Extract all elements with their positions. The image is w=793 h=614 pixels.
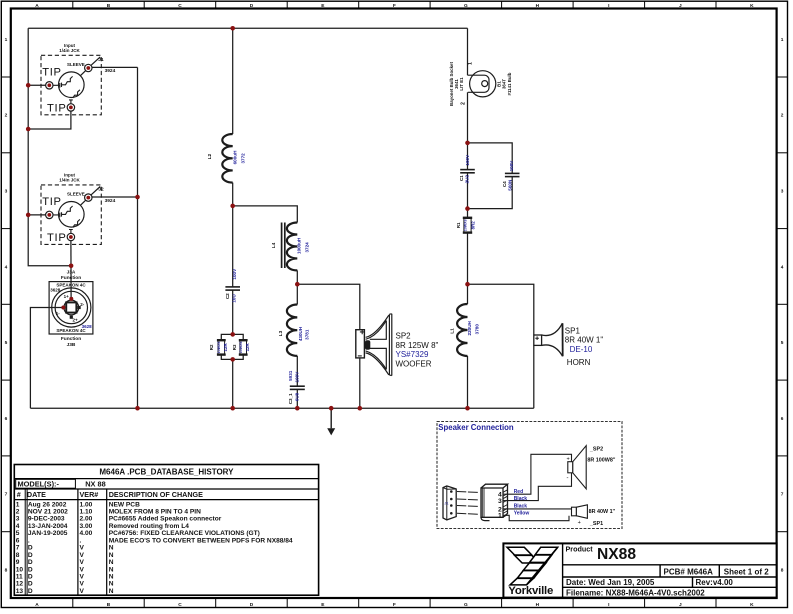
svg-text:Function: Function <box>61 275 81 281</box>
svg-text:N: N <box>109 559 114 566</box>
svg-text:C: C <box>178 3 182 9</box>
capacitor C3_1 6U8 <box>288 370 305 404</box>
svg-text:600uH: 600uH <box>232 150 237 164</box>
svg-text:2: 2 <box>5 113 8 119</box>
node C2 chain on bottom bus <box>230 406 235 411</box>
svg-text:5931: 5931 <box>288 370 293 381</box>
svg-text:6U8: 6U8 <box>295 392 300 401</box>
svg-text:L3: L3 <box>278 330 284 336</box>
svg-text:13: 13 <box>16 588 24 595</box>
svg-text:B: B <box>107 602 111 608</box>
svg-text:9: 9 <box>16 559 20 566</box>
svg-text:N: N <box>109 566 114 573</box>
svg-text:D: D <box>28 545 33 552</box>
ground <box>327 408 335 435</box>
node L4 / L3 / SP2 branch <box>295 282 300 287</box>
wire L3 to C3_1 <box>296 356 298 386</box>
svg-text:9-DEC-2003: 9-DEC-2003 <box>28 516 65 523</box>
svg-text:8R 40W 1": 8R 40W 1" <box>565 336 604 345</box>
svg-text:Date: Wed Jan 19, 2005: Date: Wed Jan 19, 2005 <box>566 578 655 587</box>
svg-text:Filename: NX88-M646A-4V0.sch2: Filename: NX88-M646A-4V0.sch2002 <box>566 588 705 597</box>
svg-text:10WX6: 10WX6 <box>464 219 468 231</box>
svg-text:12: 12 <box>16 581 24 588</box>
node C3_1 on bottom bus <box>295 406 300 411</box>
svg-text:N: N <box>109 574 114 581</box>
wire L3 node to coil <box>296 284 298 304</box>
svg-text:V: V <box>80 559 85 566</box>
svg-text:B: B <box>107 3 111 9</box>
svg-text:8: 8 <box>16 552 20 559</box>
wire C2 to R2R3 junction <box>232 291 234 335</box>
speaker connection detail <box>437 422 622 529</box>
svg-text:1.00: 1.00 <box>80 501 93 508</box>
svg-text:2U2: 2U2 <box>465 175 470 184</box>
node C4 return <box>465 206 470 211</box>
svg-text:2: 2 <box>461 102 467 105</box>
wire J2 tip stub <box>28 214 45 216</box>
capacitor C1 2U2 <box>459 154 475 184</box>
svg-text:1+: 1+ <box>64 294 70 299</box>
svg-text:F: F <box>393 3 396 9</box>
svg-text:100V: 100V <box>295 371 300 383</box>
node J2 tip on left bus <box>26 213 31 218</box>
svg-text:TIP: TIP <box>42 67 62 79</box>
wire top bus <box>28 27 467 29</box>
svg-text:A: A <box>35 3 39 9</box>
svg-text:D: D <box>28 574 33 581</box>
svg-text:D: D <box>250 602 254 608</box>
svg-text:JAN-19-2005: JAN-19-2005 <box>28 530 68 537</box>
svg-text:J3B: J3B <box>67 342 76 348</box>
svg-text:J2: J2 <box>98 187 104 193</box>
svg-text:G: G <box>464 3 468 9</box>
inductor L3 430UH <box>278 305 310 356</box>
svg-text:4.00: 4.00 <box>80 530 93 537</box>
svg-text:D: D <box>28 566 33 573</box>
svg-text:8: 8 <box>781 567 784 573</box>
svg-text:2: 2 <box>781 113 784 119</box>
svg-text:+: + <box>578 520 581 526</box>
svg-text:100V: 100V <box>465 154 470 166</box>
resistor R2 12R <box>209 340 228 354</box>
node SP2 on bottom bus <box>358 406 363 411</box>
inductor L4 1000uH with core <box>271 223 309 271</box>
svg-text:D: D <box>28 552 33 559</box>
svg-text:3924: 3924 <box>105 68 116 74</box>
svg-text:8R 100W8": 8R 100W8" <box>587 458 615 464</box>
svg-text:D: D <box>28 559 33 566</box>
node R2R3 top <box>230 332 235 337</box>
svg-text:L1: L1 <box>450 328 456 334</box>
svg-text:DE-10: DE-10 <box>570 345 593 354</box>
svg-text:K: K <box>750 602 754 608</box>
svg-text:3: 3 <box>5 189 8 195</box>
svg-text:_SP1: _SP1 <box>589 521 603 527</box>
svg-text:J: J <box>679 3 682 9</box>
svg-text:2: 2 <box>16 509 20 516</box>
svg-text:1: 1 <box>498 513 502 520</box>
svg-text:100V: 100V <box>232 268 237 280</box>
wire C3_1 to bottom bus <box>296 390 298 408</box>
svg-text:SP2: SP2 <box>396 332 412 341</box>
svg-text:TIP: TIP <box>42 196 62 208</box>
wire SP2 woofer to bottom bus <box>359 358 361 408</box>
svg-text:J3A: J3A <box>67 270 76 276</box>
wire J1 bottom tip to left bus <box>28 111 71 129</box>
svg-text:4: 4 <box>16 523 20 530</box>
svg-text:+: + <box>567 456 570 462</box>
capacitor C4 560N <box>502 160 520 191</box>
node J1 bottom tip on left bus <box>26 127 31 132</box>
svg-text:L2: L2 <box>207 153 213 159</box>
svg-text:PC#6756: FIXED CLEARANCE VIOLA: PC#6756: FIXED CLEARANCE VIOLATIONS (GT) <box>109 530 260 537</box>
svg-text:C4: C4 <box>502 181 507 187</box>
svg-text:Yellow: Yellow <box>514 510 530 516</box>
svg-text:V: V <box>80 581 85 588</box>
svg-text:VER#: VER# <box>80 490 99 499</box>
svg-text:3: 3 <box>16 516 20 523</box>
svg-text:V: V <box>80 552 85 559</box>
svg-text:WOOFER: WOOFER <box>396 359 432 368</box>
node top bus / L2 <box>230 26 235 31</box>
svg-text:NEW PCB: NEW PCB <box>109 501 140 508</box>
wire node to SP2 woofer <box>297 284 360 329</box>
svg-text:Product: Product <box>566 544 594 553</box>
node J1 tip on left bus <box>26 83 31 88</box>
svg-text:N: N <box>109 552 114 559</box>
svg-text:D: D <box>28 581 33 588</box>
node L2 / L4 branch <box>230 204 235 209</box>
svg-text:10: 10 <box>16 566 24 573</box>
svg-text:C: C <box>178 602 182 608</box>
svg-text:1: 1 <box>468 62 474 65</box>
svg-text:#: # <box>17 490 21 499</box>
wire J1 tip stub <box>28 84 45 86</box>
svg-text:NOV 21 2002: NOV 21 2002 <box>28 509 68 516</box>
svg-text:3.00: 3.00 <box>80 523 93 530</box>
node L1 / SP1 branch <box>465 282 470 287</box>
capacitor C2 10U <box>225 268 240 303</box>
svg-text:6: 6 <box>5 416 8 422</box>
svg-text:SLEEVE: SLEEVE <box>67 62 85 67</box>
svg-text:4: 4 <box>5 264 8 270</box>
bulb B1 bayonet socket <box>449 62 512 106</box>
svg-text:Removed routing from L4: Removed routing from L4 <box>109 523 190 530</box>
svg-text:10U: 10U <box>231 294 236 303</box>
wire node to SP1 horn <box>468 284 534 334</box>
svg-text:A: A <box>35 602 39 608</box>
svg-text:3781: 3781 <box>305 329 310 340</box>
svg-text:-: - <box>567 476 569 482</box>
node L1 on bottom bus <box>465 406 470 411</box>
connector J2 input 1/4in jack <box>41 172 116 244</box>
svg-text:3: 3 <box>498 498 502 505</box>
wire left bus down to speakon feed <box>28 28 71 265</box>
svg-text:13-JAN-2004: 13-JAN-2004 <box>28 523 68 530</box>
svg-text:MOLEX FROM 8 PIN TO 4 PIN: MOLEX FROM 8 PIN TO 4 PIN <box>109 509 201 516</box>
wire J2 bottom tip down to speakon pin1+ <box>70 241 72 298</box>
connector J3A J3B SPEAKON 4C <box>49 270 93 348</box>
svg-text:220UH: 220UH <box>467 320 472 335</box>
svg-text:1000uH: 1000uH <box>296 237 301 254</box>
wire L4 bottom to node <box>296 270 298 284</box>
svg-text:NX88: NX88 <box>597 546 636 563</box>
svg-text:1: 1 <box>781 37 784 43</box>
wire SP1 horn to bottom bus <box>533 346 535 409</box>
svg-text:N: N <box>109 588 114 595</box>
Yorkville logo <box>507 547 558 597</box>
svg-text:8R2: 8R2 <box>470 221 475 230</box>
wire sleeve bus vertical <box>137 67 139 408</box>
svg-text:1-: 1- <box>56 311 61 316</box>
svg-text:N: N <box>109 581 114 588</box>
svg-text:H: H <box>536 3 540 9</box>
svg-text:.: . <box>28 537 30 544</box>
wire R1 to L1 <box>467 233 469 304</box>
wire J2 sleeve to sleeve bus <box>92 196 138 198</box>
svg-text:Aug 26 2002: Aug 26 2002 <box>28 501 67 508</box>
node ground on bottom bus <box>329 406 334 411</box>
svg-text:4: 4 <box>781 264 784 270</box>
svg-text:G: G <box>464 602 468 608</box>
speaker SP1 horn <box>534 323 604 367</box>
wire L4 branch from L2 junction <box>233 206 298 223</box>
svg-text:5: 5 <box>5 340 8 346</box>
svg-text:M646A .PCB_DATABASE_HISTORY: M646A .PCB_DATABASE_HISTORY <box>99 468 234 477</box>
svg-text:7: 7 <box>781 492 784 498</box>
node C1 / C4 top <box>465 141 470 146</box>
svg-text:Sheet 1 of 2: Sheet 1 of 2 <box>724 567 769 576</box>
wire bottom bus <box>30 407 533 409</box>
svg-text:1/4in JCK: 1/4in JCK <box>59 48 80 53</box>
svg-text:C3_1: C3_1 <box>288 393 293 404</box>
svg-text:6: 6 <box>16 537 20 544</box>
connector J1 input 1/4in jack <box>41 43 116 115</box>
svg-text:3772: 3772 <box>240 153 245 164</box>
svg-text:Black: Black <box>514 496 528 502</box>
svg-text:SP1: SP1 <box>565 326 581 335</box>
node speakon feed junction <box>69 264 74 269</box>
wire speakon pin1- to bottom bus <box>30 308 62 409</box>
title block <box>503 543 776 597</box>
wire L2 column top <box>232 28 234 134</box>
svg-text:6: 6 <box>781 416 784 422</box>
resistor R3 12R <box>232 340 250 354</box>
svg-text:NX 88: NX 88 <box>85 480 106 489</box>
wire bulb column top <box>467 28 469 75</box>
svg-text:L4: L4 <box>271 242 277 248</box>
svg-text:C2: C2 <box>225 293 230 299</box>
svg-text:Yorkville: Yorkville <box>508 585 553 597</box>
svg-text:2+: 2+ <box>73 318 79 323</box>
wire bulb to C1 <box>467 92 469 169</box>
inductor L1 220UH <box>450 304 480 356</box>
svg-text:LIT E1: LIT E1 <box>459 77 464 91</box>
svg-text:3628: 3628 <box>50 288 61 293</box>
svg-text:#1141 Bulb: #1141 Bulb <box>507 72 512 95</box>
svg-text:V: V <box>80 566 85 573</box>
svg-text:430UH: 430UH <box>298 326 303 341</box>
svg-text:1: 1 <box>16 501 20 508</box>
svg-text:R2: R2 <box>209 344 214 350</box>
svg-text:K: K <box>750 3 754 9</box>
wire C4 branch <box>468 143 513 209</box>
node R2R3 bottom <box>230 357 235 362</box>
svg-text:1.10: 1.10 <box>80 509 93 516</box>
svg-text:Function: Function <box>61 336 81 342</box>
svg-text:10WX6: 10WX6 <box>239 342 243 354</box>
svg-text:MADE ECO'S TO CONVERT BETWEEN: MADE ECO'S TO CONVERT BETWEEN PDFS FOR N… <box>109 537 293 544</box>
speaker SP2 woofer <box>356 314 439 376</box>
svg-text:SPEAKON 4C: SPEAKON 4C <box>56 328 86 333</box>
svg-text:V: V <box>80 574 85 581</box>
node sleeve bus on bottom bus <box>135 406 140 411</box>
svg-text:D: D <box>250 3 254 9</box>
svg-text:DATE: DATE <box>27 490 46 499</box>
svg-text:_SP2: _SP2 <box>589 447 603 453</box>
svg-text:F: F <box>393 602 396 608</box>
svg-text:.: . <box>80 537 82 544</box>
svg-text:N: N <box>109 545 114 552</box>
svg-text:560N: 560N <box>508 179 513 191</box>
revision history table <box>14 465 318 596</box>
svg-text:2.00: 2.00 <box>80 516 93 523</box>
svg-text:TIP: TIP <box>47 232 67 244</box>
svg-text:PCB# M646A: PCB# M646A <box>664 567 714 576</box>
svg-text:1/4in JCK: 1/4in JCK <box>59 177 80 182</box>
svg-text:HORN: HORN <box>567 358 591 367</box>
svg-text:PC#6655 Added Speakon connecto: PC#6655 Added Speakon connector <box>109 516 222 523</box>
svg-text:3: 3 <box>781 189 784 195</box>
svg-text:5: 5 <box>781 340 784 346</box>
wire L2 to C2 <box>232 183 234 287</box>
svg-text:7: 7 <box>16 545 20 552</box>
wire R2R3 junction to bottom bus <box>232 359 234 408</box>
svg-text:MODEL(S):-: MODEL(S):- <box>18 480 60 489</box>
svg-text:R3: R3 <box>232 344 237 350</box>
svg-text:8R 125W 8": 8R 125W 8" <box>396 341 439 350</box>
svg-text:2-: 2- <box>80 302 85 307</box>
svg-text:100V: 100V <box>509 160 514 172</box>
svg-text:7: 7 <box>5 492 8 498</box>
svg-text:8: 8 <box>5 567 8 573</box>
svg-text:12R: 12R <box>245 343 250 352</box>
wire C1 to C4 return node <box>467 173 469 218</box>
svg-text:3780: 3780 <box>474 324 479 335</box>
inductor L2 600uH <box>207 134 246 183</box>
wire L1 to bottom bus <box>467 356 469 408</box>
svg-text:V: V <box>80 588 85 595</box>
wire R2R3 parallel stubs <box>221 334 243 359</box>
svg-text:TIP: TIP <box>47 103 67 115</box>
wire J1 sleeve to sleeve bus <box>92 66 138 68</box>
svg-text:12R: 12R <box>223 343 228 352</box>
svg-text:5: 5 <box>16 530 20 537</box>
svg-text:YS#7329: YS#7329 <box>396 350 429 359</box>
svg-text:SPEAKON 4C: SPEAKON 4C <box>56 283 86 288</box>
svg-text:8R 40W 1": 8R 40W 1" <box>589 509 616 515</box>
svg-text:R1: R1 <box>456 222 461 228</box>
node J2 sleeve on sleeve bus <box>135 195 140 200</box>
svg-text:V: V <box>80 545 85 552</box>
svg-text:10WX6: 10WX6 <box>217 342 221 354</box>
svg-text:SLEEVE: SLEEVE <box>67 192 85 197</box>
svg-text:Rev:v4.00: Rev:v4.00 <box>696 578 734 587</box>
svg-text:1: 1 <box>5 37 8 43</box>
svg-text:11: 11 <box>16 574 23 581</box>
resistor R1 8R2 <box>456 218 475 233</box>
svg-text:DESCRIPTION OF CHANGE: DESCRIPTION OF CHANGE <box>109 490 203 499</box>
svg-text:J: J <box>679 602 682 608</box>
svg-text:3724: 3724 <box>304 242 309 253</box>
svg-text:J1: J1 <box>98 57 104 63</box>
svg-text:H: H <box>536 602 540 608</box>
svg-text:Speaker Connection: Speaker Connection <box>438 423 514 432</box>
svg-text:3924: 3924 <box>105 198 116 204</box>
svg-text:C1: C1 <box>459 175 464 181</box>
svg-text:D: D <box>28 588 33 595</box>
